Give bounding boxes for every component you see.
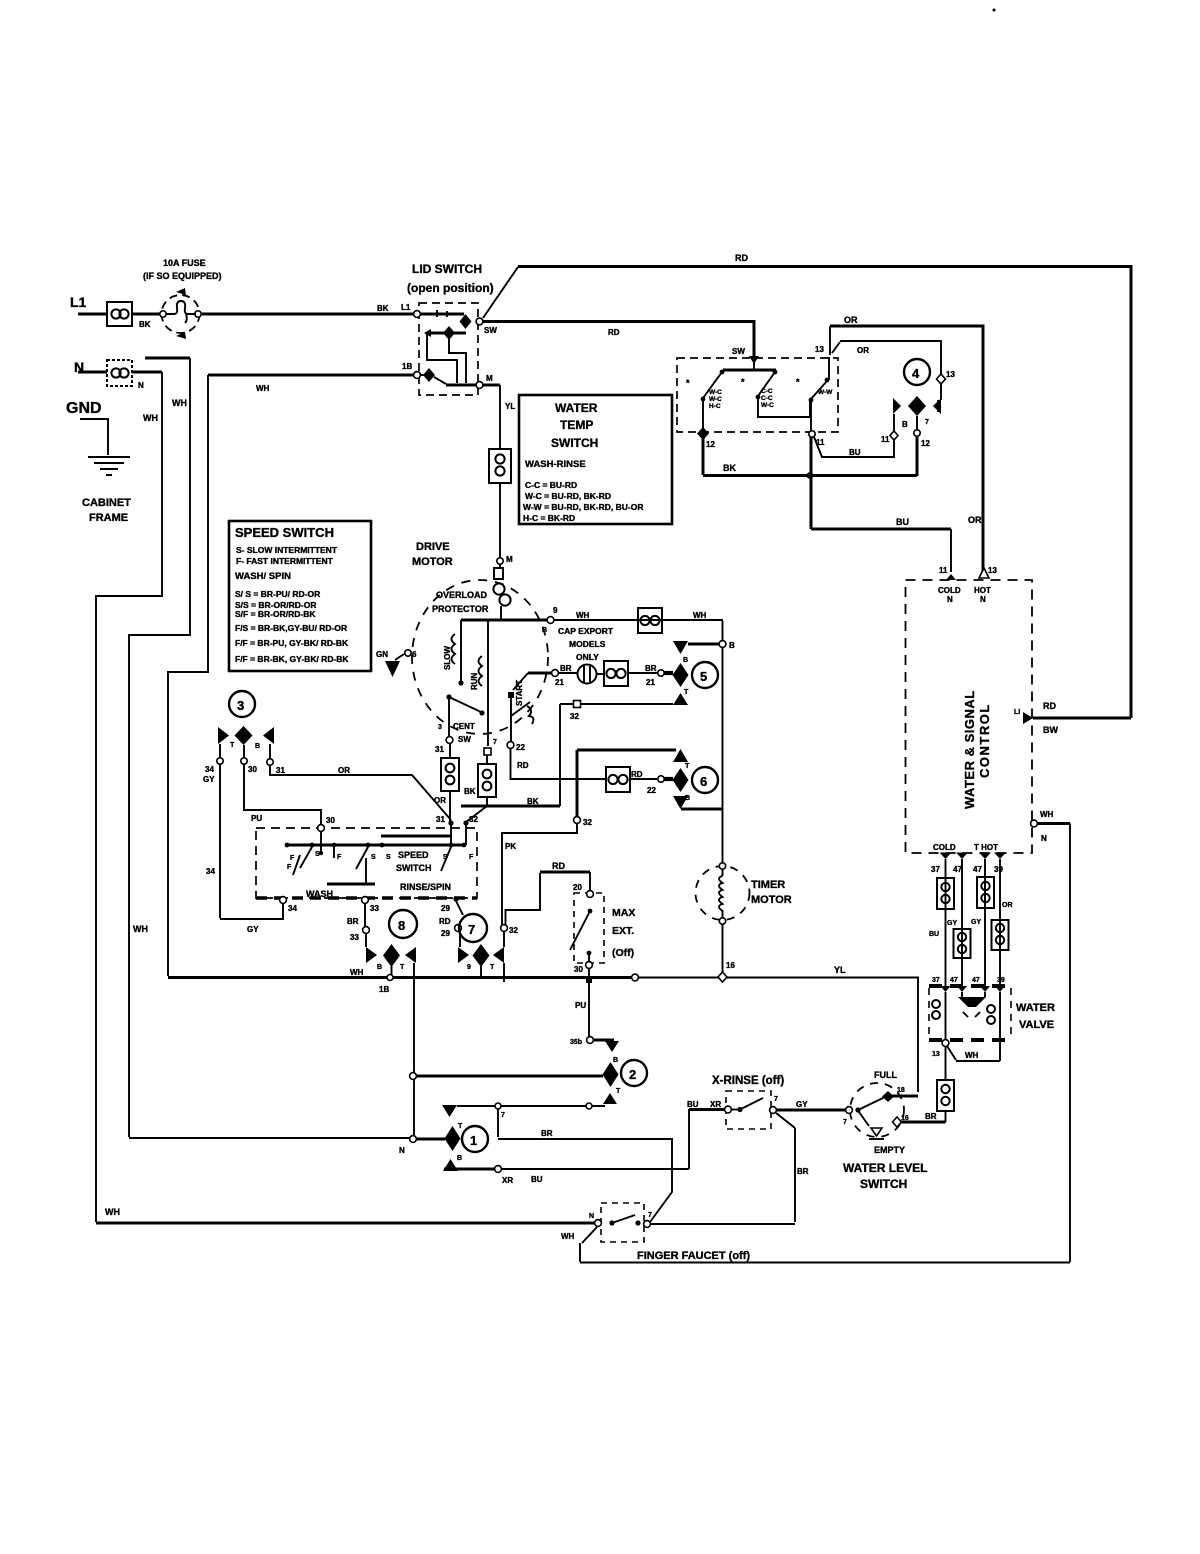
svg-text:RD: RD — [735, 253, 748, 263]
svg-text:WH: WH — [256, 384, 270, 393]
wire PU — [244, 764, 321, 825]
svg-text:N: N — [589, 1213, 594, 1220]
svg-text:7: 7 — [501, 1112, 505, 1119]
connector inline 47a — [954, 929, 971, 958]
svg-text:TEMP: TEMP — [560, 418, 593, 432]
wire BR from 7 — [498, 1109, 672, 1222]
node 21 — [528, 672, 552, 675]
svg-text:12: 12 — [706, 440, 715, 449]
svg-text:OR: OR — [857, 346, 869, 355]
svg-text:W-C = BU-RD, BK-RD: W-C = BU-RD, BK-RD — [525, 491, 611, 501]
svg-text:PK: PK — [505, 842, 516, 851]
svg-text:F: F — [287, 864, 292, 871]
wire K6 B to timer — [681, 808, 722, 811]
capacitor C1 — [578, 665, 597, 684]
wire motor top bar — [461, 619, 548, 622]
svg-text:WH: WH — [172, 398, 187, 408]
wire 39 — [999, 859, 1001, 986]
svg-text:RD: RD — [439, 917, 451, 926]
svg-text:CONTROL: CONTROL — [977, 703, 992, 778]
wire WH right border — [1037, 822, 1070, 825]
svg-text:W-W = BU-RD, BK-RD, BU-OR: W-W = BU-RD, BK-RD, BU-OR — [523, 502, 643, 512]
wire BR xrinse down — [776, 1113, 795, 1222]
svg-text:W-C: W-C — [709, 396, 722, 403]
wire RD top bus — [518, 267, 1131, 719]
svg-text:S: S — [386, 854, 391, 861]
svg-text:CENT: CENT — [453, 722, 475, 731]
node 31 — [448, 820, 453, 825]
svg-text:F/S = BR-BK,GY-BU/ RD-OR: F/S = BR-BK,GY-BU/ RD-OR — [235, 623, 347, 633]
svg-text:WH: WH — [693, 611, 707, 620]
legend water temp switch — [519, 395, 672, 524]
svg-text:BK: BK — [377, 304, 389, 313]
svg-text:32: 32 — [583, 818, 592, 827]
svg-text:34: 34 — [288, 904, 297, 913]
svg-text:BU: BU — [687, 1100, 699, 1109]
wire WH long — [96, 1222, 595, 1225]
svg-text:SW: SW — [458, 735, 471, 744]
svg-text:*: * — [686, 378, 690, 388]
wire PU down — [588, 990, 590, 1037]
svg-text:20: 20 — [573, 883, 582, 892]
wire BR bottom — [651, 1223, 795, 1225]
svg-text:YL: YL — [834, 965, 846, 975]
svg-text:13: 13 — [932, 1051, 940, 1058]
svg-text:PU: PU — [251, 814, 262, 823]
svg-text:B: B — [683, 657, 688, 664]
svg-text:F- FAST INTERMITTENT: F- FAST INTERMITTENT — [236, 556, 334, 566]
wire to comp6 T — [577, 749, 676, 752]
svg-text:3: 3 — [237, 698, 244, 713]
wire WH bus — [168, 976, 634, 979]
relay contact K5 — [722, 621, 724, 863]
svg-text:BK: BK — [723, 463, 736, 473]
svg-text:C-C: C-C — [761, 388, 773, 395]
wire 47a — [961, 859, 963, 986]
svg-text:WATER LEVEL: WATER LEVEL — [843, 1161, 927, 1175]
svg-text:32: 32 — [509, 926, 518, 935]
svg-text:OR: OR — [434, 796, 446, 805]
wire speed bus2 — [287, 844, 466, 847]
svg-text:COLD: COLD — [938, 586, 961, 595]
winding run — [487, 620, 489, 746]
wire speed bus1 — [381, 835, 452, 838]
svg-text:OR: OR — [338, 766, 350, 775]
svg-text:WH: WH — [133, 924, 148, 934]
svg-text:39: 39 — [994, 865, 1003, 874]
svg-text:XR: XR — [710, 1100, 721, 1109]
svg-text:S- SLOW INTERMITTENT: S- SLOW INTERMITTENT — [236, 545, 338, 555]
relay contact K6 — [673, 749, 688, 762]
svg-text:*: * — [796, 377, 800, 387]
svg-text:WH: WH — [1040, 810, 1054, 819]
legend speed switch — [229, 521, 371, 671]
svg-text:37: 37 — [932, 977, 940, 984]
svg-text:GN: GN — [376, 650, 388, 659]
node 12 of K4 — [916, 416, 918, 430]
svg-text:GND: GND — [66, 400, 102, 417]
svg-text:WATER: WATER — [1016, 1002, 1055, 1014]
wire RD 29 to K7 — [456, 901, 463, 915]
relay contact K7 — [459, 914, 487, 942]
svg-text:4: 4 — [912, 366, 920, 381]
svg-text:47: 47 — [972, 977, 980, 984]
svg-text:13: 13 — [946, 370, 955, 379]
svg-text:6: 6 — [412, 650, 417, 659]
svg-text:WASH/ SPIN: WASH/ SPIN — [235, 571, 291, 582]
svg-text:T: T — [616, 1088, 621, 1095]
wire lid pole1 — [420, 313, 464, 316]
svg-text:B: B — [902, 420, 908, 429]
svg-text:WASH-RINSE: WASH-RINSE — [525, 459, 586, 470]
svg-text:9: 9 — [553, 606, 558, 615]
wire WH stub upper — [145, 357, 190, 360]
svg-text:WH: WH — [143, 413, 158, 423]
svg-text:21: 21 — [555, 678, 564, 687]
svg-text:T: T — [684, 689, 689, 696]
node M — [497, 558, 503, 564]
wire N to bus — [132, 371, 162, 374]
module U1 water and signal control — [906, 580, 1033, 853]
svg-text:CABINET: CABINET — [82, 497, 131, 509]
svg-text:SPEED: SPEED — [398, 850, 429, 860]
connector inline 47b — [977, 877, 994, 908]
node 47a — [956, 853, 968, 860]
svg-text:PROTECTOR: PROTECTOR — [432, 604, 489, 614]
svg-text:*: * — [741, 377, 745, 387]
wire BK — [703, 437, 917, 476]
connector inline YL — [489, 449, 511, 483]
switch S2 water temp switch contacts — [677, 358, 838, 432]
svg-text:SWITCH: SWITCH — [551, 436, 598, 450]
node 22 — [507, 742, 514, 749]
wire YL down — [483, 384, 500, 387]
svg-text:39: 39 — [997, 977, 1005, 984]
node 12 temp box — [697, 427, 709, 440]
node 13 valve — [942, 1040, 949, 1047]
svg-text:(IF SO EQUIPPED): (IF SO EQUIPPED) — [143, 271, 222, 281]
svg-text:BU: BU — [531, 1175, 543, 1184]
node 13 hot — [979, 568, 989, 578]
valve internals — [962, 992, 985, 997]
svg-text:47: 47 — [950, 977, 958, 984]
svg-text:B: B — [377, 964, 382, 971]
wire 31 from motor — [449, 743, 451, 758]
svg-text:C-C = BU-RD: C-C = BU-RD — [525, 480, 577, 490]
wire to ground — [80, 419, 108, 455]
svg-text:OVERLOAD: OVERLOAD — [436, 590, 488, 600]
contact C-C — [773, 370, 778, 375]
ground motor — [385, 661, 400, 677]
svg-text:16: 16 — [726, 961, 735, 970]
wire L1 feed — [78, 313, 108, 316]
node 1B terminal — [414, 372, 421, 379]
svg-text:SWITCH: SWITCH — [860, 1177, 907, 1191]
motor M2 timer motor — [696, 866, 750, 920]
connector inline 37 — [937, 878, 954, 909]
svg-text:BK: BK — [464, 787, 476, 796]
wire BK to fuse — [132, 313, 163, 316]
svg-text:PU: PU — [575, 1001, 586, 1010]
node 47b — [979, 853, 991, 860]
svg-text:BU: BU — [929, 931, 939, 938]
node 30 — [318, 825, 325, 832]
svg-text:SWITCH: SWITCH — [396, 863, 432, 873]
svg-text:7: 7 — [468, 922, 475, 937]
svg-text:X-RINSE (off): X-RINSE (off) — [712, 1075, 784, 1087]
switch S3 speed switch — [256, 828, 477, 898]
svg-text:T: T — [400, 964, 405, 971]
node 32 — [463, 820, 468, 825]
svg-text:H-C: H-C — [709, 403, 721, 410]
svg-text:BK: BK — [527, 797, 539, 806]
svg-text:22: 22 — [516, 743, 525, 752]
contact W-C — [720, 370, 725, 375]
svg-text:S: S — [371, 854, 376, 861]
svg-text:FINGER FAUCET (off): FINGER FAUCET (off) — [637, 1250, 750, 1262]
svg-text:T: T — [458, 1123, 463, 1130]
solenoid cold — [945, 992, 947, 1040]
svg-text:35b: 35b — [570, 1039, 582, 1046]
wire wash tap — [327, 883, 375, 886]
svg-text:32: 32 — [469, 815, 478, 824]
svg-text:OR: OR — [1002, 902, 1013, 909]
wire WH left bus A — [96, 372, 162, 1222]
wire OR bus — [829, 326, 831, 355]
svg-text:M: M — [486, 374, 493, 383]
wire YL to motor — [499, 483, 501, 560]
svg-text:30: 30 — [574, 965, 583, 974]
wire diagonal to RD bus — [483, 267, 518, 318]
wire lid internal Z — [427, 333, 457, 383]
svg-text:33: 33 — [370, 904, 379, 913]
svg-text:WH: WH — [561, 1232, 575, 1241]
svg-text:31: 31 — [276, 766, 285, 775]
svg-text:OR: OR — [844, 315, 858, 325]
svg-text:FULL: FULL — [874, 1070, 897, 1080]
svg-text:7: 7 — [843, 1119, 847, 1126]
svg-text:N: N — [1041, 834, 1047, 843]
svg-text:WH: WH — [350, 968, 364, 977]
wire BR with capacitor — [558, 672, 578, 674]
svg-text:MAX: MAX — [612, 907, 635, 919]
wire K2 feed — [415, 1075, 603, 1078]
svg-text:WATER & SIGNAL: WATER & SIGNAL — [962, 690, 977, 809]
svg-text:34: 34 — [205, 765, 214, 774]
svg-text:W-W: W-W — [818, 389, 833, 396]
node 32 K7 — [501, 925, 508, 932]
relay K4 — [904, 359, 930, 385]
svg-text:BR: BR — [347, 917, 359, 926]
relay contact K1 — [442, 1105, 457, 1117]
svg-text:B: B — [542, 627, 547, 634]
wire BK fuse to lid switch — [202, 313, 414, 316]
svg-text:11: 11 — [939, 566, 948, 575]
relay contact K8 — [389, 910, 417, 938]
svg-text:F: F — [337, 854, 342, 861]
node 16 — [893, 1117, 902, 1127]
svg-text:GY: GY — [203, 775, 215, 784]
svg-text:GY: GY — [796, 1100, 808, 1109]
svg-text:13: 13 — [815, 345, 824, 354]
svg-text:21: 21 — [646, 678, 655, 687]
svg-text:N: N — [399, 1146, 405, 1155]
svg-text:29: 29 — [441, 929, 450, 938]
svg-text:2: 2 — [629, 1067, 636, 1082]
svg-text:7: 7 — [493, 739, 497, 746]
svg-text:W-C: W-C — [709, 389, 722, 396]
svg-text:YL: YL — [505, 402, 515, 411]
node WH — [1031, 820, 1038, 827]
node L1 terminal — [414, 311, 421, 318]
node 32 motor — [484, 748, 491, 755]
wire RD heavy — [540, 871, 590, 874]
stray dot top right — [993, 9, 996, 12]
svg-text:T: T — [490, 964, 495, 971]
svg-text:6: 6 — [700, 774, 707, 789]
wire K8 T down — [413, 963, 415, 1135]
switch S6 water level — [850, 1083, 904, 1137]
svg-text:11: 11 — [881, 435, 890, 444]
svg-text:F/F = BR-PU, GY-BK/ RD-BK: F/F = BR-PU, GY-BK/ RD-BK — [235, 638, 349, 648]
wire lid pole2 blade — [423, 368, 435, 382]
svg-text:BR: BR — [645, 664, 657, 673]
wire WH lid 1B return — [208, 374, 414, 377]
svg-text:GY: GY — [947, 920, 957, 927]
svg-text:TIMER: TIMER — [751, 879, 785, 891]
connector L1 plug — [107, 302, 132, 326]
svg-text:SW: SW — [732, 347, 745, 356]
node 13 of K4 — [937, 374, 946, 384]
wire BU thin — [814, 437, 894, 457]
wire BK heavy — [461, 805, 560, 808]
wire RD jog — [506, 873, 541, 925]
svg-text:L1: L1 — [401, 303, 411, 312]
node LI — [1023, 712, 1033, 724]
node 31 motor — [446, 737, 453, 744]
connector inline BK — [478, 764, 496, 797]
wire 34 GY — [220, 764, 283, 919]
svg-text:F: F — [469, 854, 474, 861]
svg-text:8: 8 — [398, 918, 405, 933]
svg-text:S: S — [315, 851, 320, 858]
node 35b — [587, 1037, 594, 1044]
svg-text:M: M — [506, 555, 513, 564]
wire temp bar — [753, 357, 755, 369]
svg-text:31: 31 — [435, 745, 444, 754]
svg-text:T HOT: T HOT — [974, 843, 998, 852]
svg-text:WH: WH — [965, 1051, 979, 1060]
svg-text:5: 5 — [700, 669, 707, 684]
winding slow — [460, 620, 462, 681]
wire 47b — [984, 859, 986, 986]
contact blades speed — [300, 847, 312, 868]
node 6 GN — [405, 650, 411, 656]
node 32 mid — [574, 817, 581, 824]
svg-text:B: B — [457, 1155, 462, 1162]
svg-text:3: 3 — [438, 724, 442, 731]
svg-text:MODELS: MODELS — [569, 639, 606, 649]
wire N to K1 — [415, 1138, 445, 1141]
svg-text:RD: RD — [631, 770, 643, 779]
svg-text:22: 22 — [647, 786, 656, 795]
wire XR BU — [444, 1168, 495, 1171]
solenoid hot — [999, 992, 1001, 1040]
wire 32 from motor — [486, 755, 488, 764]
svg-text:N: N — [980, 595, 986, 604]
svg-text:7: 7 — [648, 1212, 652, 1219]
node SW terminal — [476, 318, 483, 325]
wire BU heavy — [811, 437, 951, 529]
svg-text:T: T — [685, 763, 690, 770]
node 34 box — [280, 897, 287, 904]
switch S4 max ext — [574, 893, 604, 963]
svg-text:S: S — [443, 854, 448, 861]
svg-text:EXT.: EXT. — [612, 925, 634, 937]
wire 37 — [945, 859, 947, 986]
svg-text:MOTOR: MOTOR — [412, 556, 453, 568]
svg-text:10A FUSE: 10A FUSE — [163, 258, 206, 268]
svg-text:S/ S = BR-PU/ RD-OR: S/ S = BR-PU/ RD-OR — [235, 589, 320, 599]
svg-text:CAP EXPORT: CAP EXPORT — [558, 626, 614, 636]
contact W-W — [809, 398, 814, 403]
svg-text:BW: BW — [1043, 725, 1058, 735]
node 37 — [940, 853, 952, 860]
svg-text:WASH: WASH — [306, 889, 333, 899]
svg-text:SW: SW — [484, 326, 497, 335]
wire BR to K8 — [364, 903, 366, 926]
svg-text:9: 9 — [467, 964, 471, 971]
svg-text:18: 18 — [897, 1087, 905, 1094]
svg-text:47: 47 — [953, 865, 962, 874]
node 11 of K4 — [893, 414, 895, 431]
svg-text:SPEED SWITCH: SPEED SWITCH — [235, 525, 334, 540]
wire YL — [638, 978, 918, 1093]
svg-text:37: 37 — [931, 865, 940, 874]
node 39 — [994, 853, 1006, 860]
valve V1 water valve — [929, 984, 1011, 988]
svg-text:BK: BK — [139, 320, 151, 329]
svg-text:32: 32 — [570, 712, 579, 721]
svg-text:B: B — [729, 641, 735, 650]
svg-text:ONLY: ONLY — [576, 652, 599, 662]
svg-text:T: T — [230, 742, 235, 749]
svg-text:GY: GY — [247, 925, 259, 934]
svg-text:BR: BR — [925, 1112, 937, 1121]
wire WH jumper — [947, 1040, 1000, 1061]
svg-text:N: N — [947, 595, 953, 604]
svg-text:RD: RD — [608, 328, 620, 337]
svg-text:(Off): (Off) — [612, 947, 634, 959]
svg-text:B: B — [613, 1057, 618, 1064]
wire bottom border — [580, 1262, 1070, 1264]
svg-text:W-C: W-C — [761, 402, 774, 409]
svg-text:DRIVE: DRIVE — [416, 541, 450, 553]
svg-text:MOTOR: MOTOR — [751, 894, 792, 906]
svg-text:BR: BR — [797, 1167, 809, 1176]
svg-text:34: 34 — [206, 867, 215, 876]
svg-text:S/F = BR-OR/RD-BK: S/F = BR-OR/RD-BK — [235, 609, 316, 619]
connector inline WH — [638, 608, 662, 633]
svg-text:HOT: HOT — [974, 586, 991, 595]
svg-text:L1: L1 — [70, 294, 87, 310]
node 33 box — [362, 897, 369, 904]
svg-text:FRAME: FRAME — [89, 512, 128, 524]
svg-text:7: 7 — [774, 1096, 778, 1103]
svg-text:29: 29 — [441, 904, 450, 913]
wire N feed — [78, 371, 107, 374]
svg-text:31: 31 — [436, 815, 445, 824]
